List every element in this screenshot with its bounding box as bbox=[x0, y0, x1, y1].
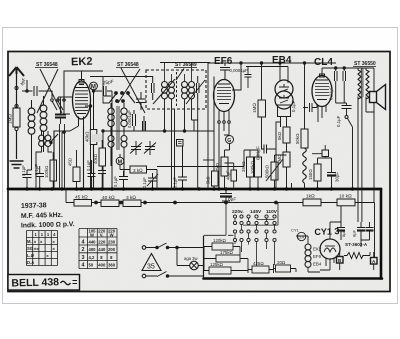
osc coil secondary upper bbox=[121, 108, 127, 114]
jack box bbox=[322, 150, 329, 157]
SEC_BUS bbox=[25, 187, 354, 190]
schematic outer border bbox=[8, 52, 390, 292]
pot arrow bbox=[266, 159, 283, 181]
IF primary trimmer arrow bbox=[153, 79, 175, 104]
SEC_IF bbox=[90, 63, 214, 190]
power box right edge bbox=[380, 189, 383, 279]
output transformer secondary bbox=[366, 70, 369, 99]
resistor 35k bbox=[247, 157, 254, 177]
wire IF to EF6 grid bbox=[197, 120, 199, 189]
IF secondary coil a bbox=[182, 82, 188, 88]
scan smudge bbox=[92, 134, 102, 142]
tube EF6 envelope bbox=[214, 80, 235, 112]
dial lamp bbox=[190, 261, 199, 270]
wire screen vertical bbox=[90, 97, 92, 189]
ground bus (main) bbox=[8, 188, 381, 191]
wire verticals left of EF6 bbox=[208, 63, 214, 189]
speaker bbox=[370, 92, 377, 103]
resistor 45k bbox=[74, 200, 92, 207]
cap at 182 bbox=[178, 146, 187, 189]
CL4 grid cap bbox=[303, 103, 317, 112]
tube EB4 diode plates bbox=[279, 84, 289, 98]
tube CL4 grids bbox=[315, 84, 329, 96]
wire node bbox=[26, 90, 28, 92]
pickup jack box bbox=[177, 140, 184, 147]
anode load wire EF6 bbox=[232, 63, 241, 90]
wire switch feeds bbox=[103, 77, 111, 104]
ground bbox=[10, 161, 24, 168]
resistor 40k bbox=[101, 200, 119, 207]
SEC_OSC bbox=[92, 77, 194, 190]
wire IF tops bbox=[165, 63, 192, 82]
tube EK2 pin wires bbox=[64, 126, 84, 131]
SEC_EB4 bbox=[246, 62, 308, 189]
screen cap EF6 bbox=[245, 67, 252, 89]
mains switch lower bbox=[142, 274, 146, 278]
SEC_CL4 bbox=[303, 67, 386, 222]
pointer lines antenna coil X bbox=[40, 69, 62, 113]
cap below osc bbox=[119, 171, 128, 189]
resistor 120k bbox=[212, 243, 233, 250]
resistor 50k bbox=[301, 129, 308, 148]
cap 0,1uF (coil bypass) bbox=[36, 166, 45, 189]
wires EB4 top bbox=[246, 63, 288, 83]
osc coil primary upper bbox=[108, 108, 114, 114]
capacitor 25pF bbox=[94, 86, 113, 189]
BELL 438 box bbox=[8, 275, 80, 291]
IF primary coil a bbox=[162, 82, 168, 88]
gang capacitor lines bbox=[60, 124, 65, 189]
resistor 7k EF6 cathode bbox=[221, 157, 228, 176]
SEC_EF6 bbox=[157, 62, 336, 201]
transformer leads bbox=[358, 68, 374, 222]
cap 0,1uF bbox=[336, 103, 352, 115]
resistor 1M (EF6 anode) bbox=[258, 100, 266, 117]
wire bbox=[291, 183, 293, 189]
antenna coil primary bbox=[28, 108, 35, 115]
resistor R 1M ohm (antenna) bbox=[13, 108, 20, 127]
circled CL4 bbox=[297, 232, 305, 240]
mains switch upper bbox=[142, 246, 146, 250]
junction dots B+ line bbox=[95, 201, 98, 204]
osc core lines bbox=[117, 106, 119, 150]
resistor 45 bbox=[73, 167, 80, 182]
wire bbox=[54, 131, 64, 189]
IF tuning cap right bbox=[197, 76, 200, 100]
tube EB4 envelope upper bbox=[275, 80, 293, 98]
tube CL4 envelope bbox=[312, 76, 332, 107]
wires EF6 pins down bbox=[219, 123, 229, 189]
switch tone bbox=[345, 116, 348, 119]
wire EK2 top cap bbox=[64, 71, 103, 110]
cap 0,1uF (cathode) bbox=[88, 160, 96, 189]
tube CL4 anode bbox=[316, 80, 328, 100]
voltage table grid bbox=[79, 229, 117, 269]
resistor 125k bbox=[209, 267, 231, 274]
wire bus line mid bbox=[103, 130, 214, 132]
osc cap 100pF bbox=[143, 116, 146, 131]
grid wire bbox=[58, 97, 73, 101]
top B+ rail bbox=[160, 62, 210, 64]
wire antenna to ground bbox=[16, 131, 18, 160]
SEC_EK2 bbox=[63, 71, 112, 189]
voltage selector terminals bbox=[233, 215, 236, 218]
resistor 5k (screen feed) bbox=[212, 171, 219, 186]
tone cap 0,01uF bbox=[335, 68, 338, 103]
resistor 100k bbox=[50, 160, 57, 181]
wire input top bbox=[39, 91, 53, 98]
osc grid cap bbox=[133, 110, 136, 131]
cap 0,1uF (antenna bypass) bbox=[23, 170, 32, 189]
electrolytic 8uF below bus bbox=[220, 189, 232, 194]
selector wires bbox=[235, 218, 275, 238]
capacitor 4pF bbox=[22, 86, 46, 96]
tube EK2 cathode bbox=[79, 117, 84, 127]
resistor 175k bbox=[216, 255, 240, 262]
osc coil secondary lower bbox=[121, 136, 127, 142]
IF transformer ST 36549 dashed box bbox=[146, 70, 206, 109]
tube EF6 anode bbox=[218, 84, 230, 104]
squiggle wire to CL4 grid bbox=[303, 148, 307, 183]
padder capacitor bbox=[136, 92, 146, 110]
resistor 3k bbox=[123, 200, 141, 207]
antenna bbox=[16, 68, 18, 108]
wire EK2 screen top bbox=[85, 97, 91, 106]
circled M osc bbox=[116, 157, 124, 165]
tube CY13 bbox=[320, 239, 340, 259]
wires caps bbox=[330, 222, 370, 247]
trimmer arrow mid bbox=[147, 174, 158, 186]
top rail wire bbox=[208, 62, 336, 64]
resistor 40k second bbox=[99, 148, 106, 166]
tube EF6 grids bbox=[217, 88, 231, 100]
IF core dashed center line bbox=[176, 72, 178, 107]
EB4 pin wires bbox=[281, 117, 287, 128]
IF tuning cap left bbox=[152, 76, 155, 100]
resistor 3k bbox=[130, 166, 147, 173]
SEC_POWER bbox=[232, 209, 278, 215]
wire to grid cap bbox=[64, 101, 70, 114]
heater chain coil bbox=[305, 244, 311, 250]
resistor 100k bbox=[255, 157, 262, 177]
CL4 pins bbox=[318, 106, 326, 123]
electrolytic 8uF b bbox=[357, 222, 365, 240]
wire verticals osc bbox=[103, 116, 194, 189]
cap mid bbox=[148, 173, 157, 189]
valve table grid bbox=[27, 231, 58, 266]
transformer core bbox=[361, 68, 363, 97]
osc coil primary lower bbox=[108, 136, 114, 142]
resistor 20 bbox=[276, 265, 291, 272]
triangle 35 bbox=[142, 254, 161, 271]
SEC_MIDROW bbox=[23, 124, 107, 189]
grid cap EF6 0,0001uF bbox=[220, 63, 230, 79]
band switch contacts bbox=[51, 99, 54, 102]
cap (screen) bbox=[98, 140, 106, 189]
wire IF bottom leads bbox=[165, 99, 198, 131]
wire IF screen drops bbox=[172, 99, 175, 189]
wire EK2 anode to IF bbox=[90, 76, 153, 78]
osc coil leads bbox=[111, 103, 124, 176]
switch blades bbox=[109, 94, 135, 103]
resistor 150 bbox=[314, 164, 321, 181]
wires terminals bbox=[340, 252, 374, 270]
power box bottom edge bbox=[204, 277, 383, 280]
tone cap second bbox=[343, 68, 346, 103]
resistor 40k (EK2) bbox=[90, 130, 97, 145]
terminal box A bbox=[371, 258, 378, 265]
tube EB4 base bbox=[278, 105, 291, 117]
coupling cap 0,01uF bbox=[262, 145, 277, 154]
pointer line IF2 bbox=[176, 69, 184, 81]
resistor 425 bbox=[252, 266, 269, 273]
band switch blade lower bbox=[51, 134, 58, 142]
pointer lines IF1 X bbox=[118, 69, 140, 103]
power box left edge bbox=[203, 236, 205, 279]
circled M (grid cap) bbox=[90, 82, 98, 90]
electrolytic 40uF bbox=[231, 170, 237, 181]
output transformer primary bbox=[358, 70, 361, 99]
tube EB4 envelope lower bbox=[275, 91, 293, 109]
IF primary coil b bbox=[169, 82, 175, 88]
resistor 1M diode load bbox=[283, 152, 290, 167]
wire anode top bbox=[322, 68, 374, 76]
SEC_BOTLEFT bbox=[66, 189, 375, 257]
IF secondary coil b bbox=[189, 82, 195, 88]
bus junction dots bbox=[25, 187, 28, 190]
tube EK2 top cap bbox=[79, 80, 84, 84]
ballast zigzag bbox=[344, 253, 366, 259]
tube EF6 pins bbox=[219, 111, 229, 122]
wire bbox=[276, 122, 287, 189]
resistor 1k bbox=[303, 199, 321, 206]
node dot bbox=[63, 131, 66, 134]
SEC_INPUT bbox=[9, 67, 73, 189]
tube EK2 envelope bbox=[73, 81, 91, 119]
wire AVC bbox=[157, 150, 250, 167]
resistor 5k bbox=[283, 127, 290, 143]
terminal box B bbox=[337, 257, 344, 264]
electrolytic 30uF bbox=[327, 158, 336, 189]
wire M down bbox=[93, 90, 95, 130]
resistor 10k bbox=[337, 199, 355, 206]
SEC_TOP bbox=[35, 55, 376, 68]
trimmer cap 1 bbox=[130, 141, 142, 155]
potentiometer 500k bbox=[271, 162, 278, 180]
electrolytic 8uF a bbox=[337, 206, 345, 240]
tube EK2 grids bbox=[75, 88, 88, 111]
circled G bbox=[226, 136, 234, 144]
osc band switch contacts bbox=[115, 92, 118, 95]
antenna coil secondary bbox=[40, 105, 47, 112]
electrolytic 8uF c bbox=[366, 222, 374, 240]
padder capacitor bbox=[55, 115, 66, 118]
trimmer cap 2 bbox=[144, 141, 156, 155]
second coil pair (wave band) bbox=[39, 135, 45, 141]
B+ distribution line bbox=[66, 189, 375, 257]
IF secondary trimmer arrow bbox=[186, 80, 205, 104]
